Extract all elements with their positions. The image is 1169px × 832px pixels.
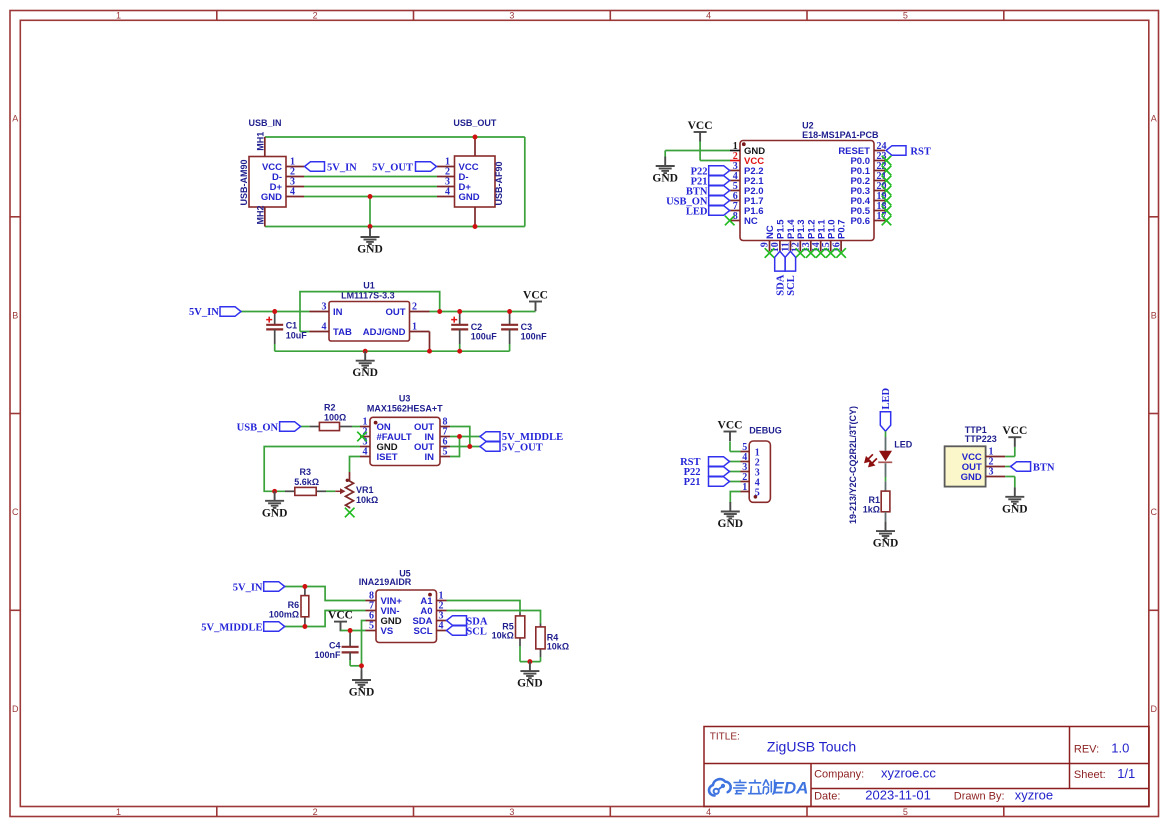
svg-text:GND: GND <box>357 244 383 256</box>
svg-text:3: 3 <box>509 807 514 817</box>
svg-text:R2: R2 <box>324 403 336 413</box>
svg-text:VS: VS <box>381 626 394 637</box>
svg-text:5V_OUT: 5V_OUT <box>372 162 413 173</box>
svg-text:5V_MIDDLE: 5V_MIDDLE <box>201 622 262 633</box>
svg-text:5V_IN: 5V_IN <box>327 162 357 173</box>
svg-text:TTP223: TTP223 <box>965 434 997 444</box>
svg-text:U3: U3 <box>399 394 411 404</box>
svg-text:MH2: MH2 <box>255 205 265 224</box>
svg-text:VCC: VCC <box>328 610 353 622</box>
svg-text:R3: R3 <box>300 467 312 477</box>
svg-text:P1.5: P1.5 <box>776 219 787 239</box>
svg-text:ZigUSB Touch: ZigUSB Touch <box>767 739 856 755</box>
svg-text:GND: GND <box>459 192 480 203</box>
svg-text:SCL: SCL <box>466 627 486 638</box>
svg-text:xyzroe.cc: xyzroe.cc <box>881 765 936 780</box>
svg-text:C: C <box>12 507 19 517</box>
svg-text:Drawn By:: Drawn By: <box>954 791 1005 803</box>
svg-text:NC: NC <box>744 216 758 227</box>
svg-text:TAB: TAB <box>333 327 352 338</box>
svg-text:U2: U2 <box>802 121 814 131</box>
svg-text:GND: GND <box>262 507 288 519</box>
svg-text:5V_IN: 5V_IN <box>189 307 219 318</box>
svg-text:5: 5 <box>443 447 448 458</box>
svg-text:P0.6: P0.6 <box>850 216 870 227</box>
svg-text:1/1: 1/1 <box>1117 766 1135 781</box>
svg-text:USB-AM90: USB-AM90 <box>239 159 249 205</box>
svg-text:100mΩ: 100mΩ <box>269 610 299 620</box>
svg-text:1: 1 <box>116 11 121 21</box>
svg-text:4: 4 <box>322 322 327 333</box>
svg-text:LED: LED <box>894 440 913 450</box>
svg-text:4: 4 <box>706 11 711 21</box>
svg-text:P0.7: P0.7 <box>837 219 848 239</box>
svg-text:GND: GND <box>349 687 375 699</box>
svg-text:xyzroe: xyzroe <box>1015 788 1053 803</box>
svg-text:GND: GND <box>961 472 982 483</box>
svg-text:D: D <box>12 704 19 714</box>
svg-text:4: 4 <box>439 621 444 632</box>
svg-text:5V_IN: 5V_IN <box>233 582 263 593</box>
svg-text:1: 1 <box>412 322 417 333</box>
svg-text:IN: IN <box>333 307 343 318</box>
svg-text:NC: NC <box>765 225 776 239</box>
svg-text:VCC: VCC <box>523 290 548 302</box>
svg-text:100nF: 100nF <box>521 332 548 342</box>
svg-text:10kΩ: 10kΩ <box>547 642 569 652</box>
svg-text:GND: GND <box>873 538 899 550</box>
svg-text:100uF: 100uF <box>471 332 498 342</box>
svg-text:4: 4 <box>445 187 450 198</box>
svg-text:VCC: VCC <box>1002 425 1027 437</box>
svg-text:4: 4 <box>706 807 711 817</box>
svg-text:1.0: 1.0 <box>1111 741 1129 756</box>
svg-text:10kΩ: 10kΩ <box>492 631 514 641</box>
svg-text:C3: C3 <box>521 322 533 332</box>
svg-text:1: 1 <box>742 482 747 493</box>
svg-text:10kΩ: 10kΩ <box>356 495 378 505</box>
svg-text:DEBUG: DEBUG <box>749 426 782 436</box>
svg-text:MH1: MH1 <box>255 132 265 151</box>
svg-text:B: B <box>12 310 18 320</box>
svg-text:19-213/Y2C-CQ2R2L/3T(CY): 19-213/Y2C-CQ2R2L/3T(CY) <box>848 406 858 524</box>
svg-text:TITLE:: TITLE: <box>710 732 740 743</box>
svg-text:R6: R6 <box>288 600 300 610</box>
svg-text:SDA: SDA <box>775 274 786 295</box>
svg-text:A: A <box>12 114 18 124</box>
svg-text:3: 3 <box>989 467 994 478</box>
svg-text:12: 12 <box>791 242 802 252</box>
svg-text:ADJ/GND: ADJ/GND <box>363 327 406 338</box>
svg-text:LED: LED <box>686 207 708 218</box>
svg-text:IN: IN <box>425 452 435 463</box>
svg-text:C: C <box>1150 507 1157 517</box>
svg-text:REV:: REV: <box>1074 744 1099 756</box>
svg-text:5: 5 <box>369 621 374 632</box>
svg-text:2023-11-01: 2023-11-01 <box>865 788 931 803</box>
svg-text:SCL: SCL <box>786 275 797 295</box>
svg-text:USB_IN: USB_IN <box>249 118 282 128</box>
svg-text:ISET: ISET <box>377 452 398 463</box>
svg-text:GND: GND <box>652 173 678 185</box>
svg-text:GND: GND <box>517 678 543 690</box>
svg-text:VCC: VCC <box>718 420 743 432</box>
svg-text:C4: C4 <box>329 641 341 651</box>
svg-text:B: B <box>1151 310 1157 320</box>
svg-text:Date:: Date: <box>814 791 840 803</box>
svg-text:P21: P21 <box>684 477 701 488</box>
svg-text:3: 3 <box>322 302 327 313</box>
svg-text:5: 5 <box>903 11 908 21</box>
svg-text:USB-AF90: USB-AF90 <box>494 161 504 205</box>
svg-text:VCC: VCC <box>688 120 713 132</box>
svg-text:INA219AIDR: INA219AIDR <box>359 577 412 587</box>
svg-text:1kΩ: 1kΩ <box>863 504 880 514</box>
svg-text:E18-MS1PA1-PCB: E18-MS1PA1-PCB <box>802 130 879 140</box>
svg-text:VR1: VR1 <box>356 485 374 495</box>
svg-text:4: 4 <box>363 447 368 458</box>
svg-text:A: A <box>1151 114 1157 124</box>
svg-text:USB_OUT: USB_OUT <box>453 118 497 128</box>
svg-text:Sheet:: Sheet: <box>1074 769 1106 781</box>
svg-text:GND: GND <box>718 518 744 530</box>
svg-text:1: 1 <box>116 807 121 817</box>
svg-text:3: 3 <box>509 11 514 21</box>
svg-text:5V_OUT: 5V_OUT <box>502 442 543 453</box>
svg-text:Company:: Company: <box>814 768 864 780</box>
svg-text:MAX1562HESA+T: MAX1562HESA+T <box>367 404 443 414</box>
svg-text:C2: C2 <box>471 322 483 332</box>
svg-text:5: 5 <box>903 807 908 817</box>
svg-text:5: 5 <box>755 487 760 498</box>
svg-text:GND: GND <box>261 192 282 203</box>
svg-text:P1.0: P1.0 <box>826 219 837 239</box>
svg-text:9: 9 <box>760 242 771 247</box>
svg-text:SCL: SCL <box>414 626 433 637</box>
svg-text:USB_ON: USB_ON <box>237 422 279 433</box>
svg-text:GND: GND <box>352 367 378 379</box>
svg-text:4: 4 <box>290 187 295 198</box>
svg-text:P1.3: P1.3 <box>796 219 807 239</box>
svg-text:2: 2 <box>313 11 318 21</box>
svg-text:100nF: 100nF <box>314 650 341 660</box>
svg-text:RST: RST <box>910 147 930 158</box>
svg-text:D: D <box>1150 704 1157 714</box>
svg-text:100Ω: 100Ω <box>324 413 346 423</box>
svg-text:LED: LED <box>881 387 892 409</box>
svg-text:OUT: OUT <box>385 307 405 318</box>
svg-text:10uF: 10uF <box>286 330 308 340</box>
svg-text:U1: U1 <box>363 281 375 291</box>
svg-text:5.6kΩ: 5.6kΩ <box>294 477 319 487</box>
svg-text:GND: GND <box>1002 503 1028 515</box>
svg-text:2: 2 <box>412 302 417 313</box>
svg-text:C1: C1 <box>286 321 298 331</box>
svg-text:2: 2 <box>313 807 318 817</box>
svg-text:BTN: BTN <box>1033 462 1055 473</box>
svg-text:EDA: EDA <box>773 779 809 798</box>
